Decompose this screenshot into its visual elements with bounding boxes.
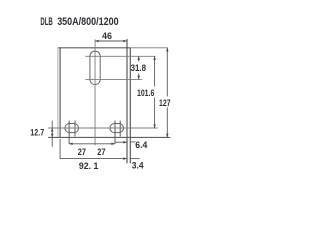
dim 92.1 label [79,161,99,172]
dim 12.7 line upper [51,121,53,147]
dim 12.7 up arrow [51,134,54,138]
svg-text:31.8: 31.8 [131,63,146,74]
dim 46 line [95,40,127,42]
dim 27-27 line [69,143,115,145]
dim 31.8 line upper [138,56,140,61]
plate left edge light line [57,48,59,138]
hole 2 right arc tick [119,121,121,137]
dim 31.8 down arrow [137,76,140,80]
dim 46 label [102,31,112,42]
dim 46 left arrow [95,40,99,43]
dim 92.1 left extension [59,139,61,159]
dim 31.8 up arrow [137,56,140,60]
dim 101.6 up arrow [153,56,156,60]
svg-text:27: 27 [78,147,86,158]
svg-text:6.4: 6.4 [135,140,148,151]
dim 127 line lower [166,108,168,138]
svg-text:12.7: 12.7 [30,128,44,139]
dim 27 right arrow [111,143,115,146]
dim 6.4 line [115,141,127,143]
dim 127 line upper [166,48,168,97]
dim 127 label [159,98,171,109]
dim 27 left arrow [69,143,73,146]
hole 1 right arc tick [74,121,76,137]
dim 31.8 line lower [138,74,140,80]
dim 92.1 right arrow / 3.4 arrow [123,157,127,160]
hole 2 left arc tick [114,121,116,144]
plate right inner edge v1 [126,39,128,163]
dim 101.6 line upper [154,56,156,86]
dim 6.4 leader dash [130,141,135,143]
dim 46 right arrow [123,40,127,43]
dim 27 label right [97,147,105,158]
dim 12.7 label [30,128,44,139]
svg-text:46: 46 [102,31,112,42]
slot centerline [94,39,96,145]
title DLB 350A/800/1200 [40,16,118,28]
dim 3.4 leader dash [130,158,139,160]
dim 127 extension top [130,47,168,49]
plate top edge [58,47,130,49]
dim 127 up arrow [166,48,169,52]
plate right outer edge v2 [129,48,131,164]
slot top tangent / extension line [85,55,155,57]
svg-text:350A/800/1200: 350A/800/1200 [57,16,118,28]
svg-text:127: 127 [159,98,171,109]
dim 6.4 label [135,140,148,151]
hole 1 left arc tick [68,121,70,144]
dim 101.6 line lower [154,98,156,129]
svg-text:27: 27 [97,147,105,158]
dim 12.7 down arrow [51,128,54,132]
dim 3.4 label [132,161,144,172]
dim 92.1 line [60,158,127,160]
dim 27 label left [78,147,86,158]
holes centerline [48,127,157,129]
plate bottom edge [48,136,170,138]
hole 2 (obround) [110,123,124,132]
dim 6.4 arrow [123,141,127,144]
svg-text:3.4: 3.4 [132,161,144,172]
hole 1 (obround) [65,123,79,132]
slot (obround) [90,51,100,84]
plate left edge dark line [59,48,61,138]
dim 101.6 label [137,88,154,99]
svg-text:92. 1: 92. 1 [79,161,99,172]
svg-text:101.6: 101.6 [137,88,154,99]
dim 101.6 down arrow [153,124,156,128]
dim 127 down arrow [166,134,169,138]
svg-text:DLB: DLB [40,16,52,28]
dim 31.8 label [131,63,146,74]
slot bottom tangent / extension line [85,78,142,80]
